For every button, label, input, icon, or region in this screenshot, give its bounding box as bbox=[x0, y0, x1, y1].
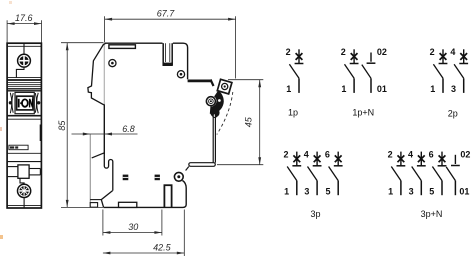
svg-text:17.6: 17.6 bbox=[15, 13, 33, 23]
pole 3p+N second bbox=[412, 152, 426, 196]
scan noise dot bottom-left bbox=[0, 235, 3, 239]
toggle side curves right bbox=[35, 93, 38, 113]
clip pivot bbox=[206, 97, 215, 106]
svg-text:1: 1 bbox=[284, 186, 289, 196]
toggle side curves left bbox=[10, 93, 13, 113]
pole 3p+N first bbox=[391, 152, 405, 196]
vent band lines bbox=[7, 78, 41, 89]
svg-text:85: 85 bbox=[57, 120, 67, 131]
back lower edge bbox=[104, 181, 187, 208]
clip end square bbox=[217, 79, 232, 94]
schematic 3p bbox=[287, 152, 342, 196]
bottom pad bbox=[119, 202, 137, 207]
svg-text:1p+N: 1p+N bbox=[352, 107, 374, 117]
svg-text:3: 3 bbox=[409, 186, 414, 196]
svg-text:6: 6 bbox=[429, 149, 434, 159]
rivet top-left bbox=[109, 60, 116, 67]
schematic 2p bbox=[433, 49, 468, 93]
pole 1p+N phase bbox=[345, 49, 359, 93]
svg-text:01: 01 bbox=[459, 186, 469, 196]
clip cam sector bbox=[210, 91, 224, 114]
pole 3p third bbox=[329, 152, 343, 196]
rivet mid bbox=[177, 71, 184, 78]
latch square left bbox=[123, 175, 129, 181]
dimension 30 bbox=[103, 210, 162, 236]
pivot side lug bbox=[218, 99, 222, 103]
schematic 1p+N bbox=[345, 49, 376, 93]
svg-text:02: 02 bbox=[377, 47, 387, 57]
rating label plate bbox=[9, 145, 28, 150]
pole 3p+N third bbox=[432, 152, 446, 196]
scan noise dot top-left bbox=[9, 1, 12, 4]
back step ledge bbox=[188, 80, 211, 83]
hook lower slant bbox=[101, 191, 112, 208]
front view body outline bbox=[7, 43, 41, 208]
top din claw bbox=[88, 44, 104, 105]
front hook bbox=[104, 154, 113, 191]
pole 3p+N neutral bbox=[446, 155, 460, 195]
dimension 6.8 bbox=[72, 133, 138, 136]
clip end square hole bbox=[222, 83, 228, 89]
top slot bbox=[163, 43, 173, 66]
svg-text:1p: 1p bbox=[288, 107, 298, 117]
schematic 1p bbox=[289, 49, 303, 93]
pivot lower lug bbox=[213, 114, 217, 118]
dimension 17.6 bbox=[7, 20, 41, 42]
svg-text:4: 4 bbox=[450, 47, 455, 57]
hook base line bbox=[90, 199, 101, 201]
svg-text:2: 2 bbox=[283, 149, 288, 159]
screw terminal bottom bbox=[18, 184, 31, 197]
mid lines bbox=[7, 152, 41, 154]
latch square right bbox=[155, 175, 160, 181]
din clip back thin line bbox=[89, 134, 91, 202]
dimension 67.7 bbox=[105, 16, 236, 78]
pole 3p second bbox=[308, 152, 322, 196]
dimension 42.5 bbox=[103, 210, 184, 257]
pole 1p+N neutral bbox=[362, 53, 376, 93]
svg-text:5: 5 bbox=[325, 186, 330, 196]
right edge rib bbox=[40, 125, 42, 142]
schematic 3p+N bbox=[391, 152, 460, 196]
pole 2p first bbox=[433, 49, 447, 93]
svg-text:30: 30 bbox=[128, 222, 138, 232]
screw terminal top bbox=[18, 54, 31, 67]
pole 3p first bbox=[287, 152, 301, 196]
svg-text:1: 1 bbox=[388, 186, 393, 196]
scan noise dot left edge bbox=[0, 127, 2, 131]
clip swing dashed arc bbox=[217, 92, 233, 135]
wire step below top screw bbox=[16, 67, 24, 77]
svg-text:3: 3 bbox=[304, 186, 309, 196]
pole 1p terminals 2-1 bbox=[289, 49, 303, 93]
top label recess bbox=[109, 45, 135, 49]
side view outline top bbox=[104, 43, 188, 154]
wire to bottom screw bbox=[20, 178, 24, 184]
svg-text:2p: 2p bbox=[448, 108, 458, 118]
clip cam lower bulge bbox=[210, 108, 219, 117]
toggle frame bbox=[7, 91, 41, 119]
ledge to clip link bbox=[211, 80, 214, 87]
svg-text:02: 02 bbox=[460, 149, 470, 159]
svg-text:01: 01 bbox=[377, 84, 387, 94]
svg-text:2: 2 bbox=[388, 149, 393, 159]
svg-text:5: 5 bbox=[429, 186, 434, 196]
svg-text:2: 2 bbox=[341, 47, 346, 57]
bottom terminal block bbox=[7, 165, 40, 178]
front view top center line bbox=[23, 43, 25, 54]
svg-text:67.7: 67.7 bbox=[157, 8, 176, 18]
bottom edge lines bbox=[7, 205, 41, 207]
svg-text:2: 2 bbox=[430, 47, 435, 57]
rocker with I-ON marking bbox=[17, 96, 34, 110]
svg-text:1: 1 bbox=[341, 84, 346, 94]
svg-text:2: 2 bbox=[286, 47, 291, 57]
clip foot bbox=[90, 203, 97, 208]
svg-text:3p: 3p bbox=[310, 209, 320, 219]
din clip slant bbox=[92, 153, 104, 158]
svg-text:1: 1 bbox=[430, 84, 435, 94]
clip lever shaft bbox=[213, 109, 215, 163]
svg-text:4: 4 bbox=[408, 149, 413, 159]
foot step bbox=[186, 167, 189, 171]
svg-text:1: 1 bbox=[286, 84, 291, 94]
svg-text:4: 4 bbox=[304, 149, 309, 159]
svg-text:3p+N: 3p+N bbox=[421, 209, 443, 219]
svg-text:45: 45 bbox=[244, 116, 254, 127]
wire below bottom screw bbox=[23, 198, 25, 208]
svg-text:3: 3 bbox=[451, 84, 456, 94]
dimension 85 bbox=[61, 43, 104, 208]
rivet bottom-back bbox=[174, 172, 183, 181]
toggle side dots bbox=[9, 101, 12, 104]
pole 2p second bbox=[454, 49, 468, 93]
clip lever foot bbox=[189, 163, 216, 167]
svg-text:42.5: 42.5 bbox=[153, 242, 172, 252]
svg-text:6.8: 6.8 bbox=[122, 124, 135, 134]
bottom slot bbox=[164, 185, 173, 208]
svg-text:6: 6 bbox=[325, 149, 330, 159]
dimension 45 bbox=[217, 80, 263, 165]
